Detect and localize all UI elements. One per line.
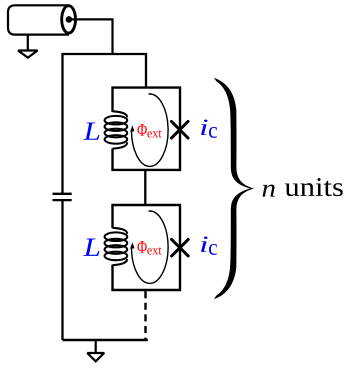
inductor L1 coil [105,111,128,148]
unit 1 loop box [113,88,181,170]
source cylinder end ellipse [62,6,76,33]
source cylinder body [8,5,69,34]
source center pin dot [66,16,73,23]
capacitor C bottom plate [53,199,72,201]
capacitor C top plate [53,193,72,195]
left rail lower wire [61,200,63,340]
left rail upper wire [61,53,63,193]
feed stub into unit 1 [145,53,147,88]
wire from source dot to feed corner [69,19,113,54]
L1 label [83,122,99,139]
ground triangle under source [18,51,38,58]
i_c label 2 [201,237,208,252]
dashed wire below unit 2 [144,291,146,339]
flux label 1 [137,124,146,136]
flux arrow 1 [131,94,168,166]
bottom rail wire [63,339,148,341]
unit 2 loop box [113,205,181,290]
top rail wire [63,53,147,55]
brace [214,78,254,299]
inductor L2 coil [105,228,128,265]
i_c label 1 [201,120,208,135]
junction X1 [171,121,188,138]
flux arrowhead 2 [130,242,134,249]
flux arrowhead 1 [130,125,134,132]
flux arrow 2 [131,211,168,283]
L2 label [83,239,99,256]
junction X2 [172,239,189,256]
ground stem under source [27,34,29,50]
n units label [263,185,275,197]
stub between units [144,170,146,205]
ground triangle bottom [87,353,104,361]
flux label 2 [137,241,146,253]
ground stem bottom [95,340,97,353]
